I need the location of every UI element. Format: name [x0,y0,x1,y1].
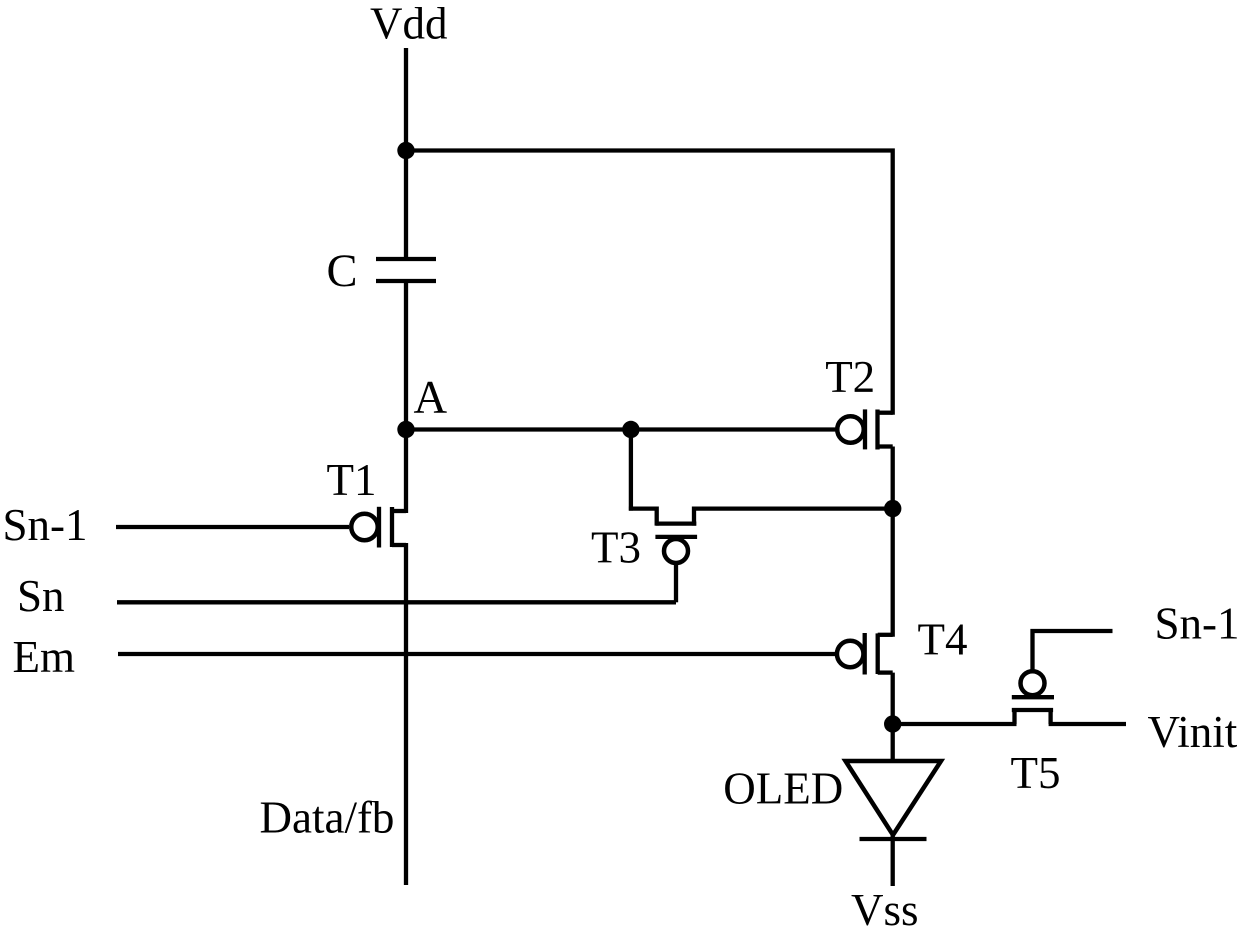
wire: OLED node to Vinit rail left segment [893,722,1017,726]
node: junction dot above T3 [622,421,639,438]
transistor T3 left terminal drop from node A rail [629,428,633,511]
wire: capacitor to node A and T1 source [404,281,408,513]
svg-text:T2: T2 [825,352,875,402]
transistor T3 gate lead down to Sn wire [674,563,678,602]
svg-text:C: C [327,246,358,297]
node: junction dot T4-OLED-T5 [884,715,901,732]
wire: Sn-1 to T1 gate [116,525,349,529]
wire: mid node down to T4 [891,509,895,637]
transistor T1 gate circle [351,514,378,541]
transistor T5 gate circle [1021,671,1045,695]
transistor T2 source jog [878,411,893,415]
transistor T3 channel [656,521,697,525]
transistor T4 gate bar [863,633,867,675]
capacitor C top plate [376,257,436,261]
transistor T4 channel [876,633,880,674]
node: junction dot T2-T3-T4 [884,500,901,517]
OLED cathode bar [860,837,927,841]
svg-text:T4: T4 [918,615,968,665]
svg-text:Em: Em [13,632,76,682]
node: Vdd junction dot [397,142,414,159]
svg-text:T3: T3 [591,523,641,573]
transistor T5 drain step [1048,710,1052,724]
transistor T3 gate bar [655,535,697,539]
transistor T5 gate bar [1012,695,1054,699]
transistor T4 source jog [878,633,893,637]
transistor T2 channel [875,410,879,450]
svg-text:Data/fb: Data/fb [260,793,395,843]
svg-text:Sn-1: Sn-1 [3,500,88,550]
svg-text:A: A [414,373,448,424]
svg-text:Vdd: Vdd [370,0,448,49]
svg-text:Sn-1: Sn-1 [1155,599,1240,649]
wire: T5 to Vinit label [1049,722,1126,726]
transistor T4 drain jog [878,670,893,674]
transistor T2 gate bar [863,409,867,449]
transistor T4 gate circle [837,641,864,668]
OLED diode triangle [846,761,942,835]
transistor T5 source step [1012,710,1016,724]
wire: T4 drain down to OLED node [891,673,895,761]
transistor T3 drain jog [694,509,893,526]
wire: Em horizontal to T4 gate [118,652,837,656]
wire: Vdd vertical drop [404,48,408,259]
svg-text:OLED: OLED [723,764,843,814]
transistor T3 gate circle [664,539,688,563]
wire: node A horizontal to T2 gate [406,427,838,431]
transistor T1 drain jog [392,543,406,547]
transistor T2 drain jog [878,444,893,448]
transistor T1 gate bar [377,507,381,548]
node A junction dot [397,421,414,438]
wire: top rail from Vdd node to T2 column [406,151,893,415]
wire: OLED cathode to Vss [891,833,895,886]
svg-text:Vss: Vss [851,885,919,930]
wire: T2 drain down to mid node [891,447,895,509]
wire: Data/fb vertical column [404,543,408,885]
capacitor C bottom plate [376,279,436,283]
transistor T1 source jog [392,509,406,513]
transistor T1 channel [390,507,394,547]
svg-text:Vinit: Vinit [1148,707,1238,757]
transistor T5 gate lead up [1033,631,1113,671]
transistor T3 source jog [629,509,657,526]
transistor T5 channel [1012,708,1053,712]
svg-text:T5: T5 [1011,748,1061,798]
wire: Sn horizontal [117,600,676,604]
transistor T2 gate circle [837,416,864,443]
svg-text:Sn: Sn [17,571,65,621]
svg-text:T1: T1 [327,455,377,505]
